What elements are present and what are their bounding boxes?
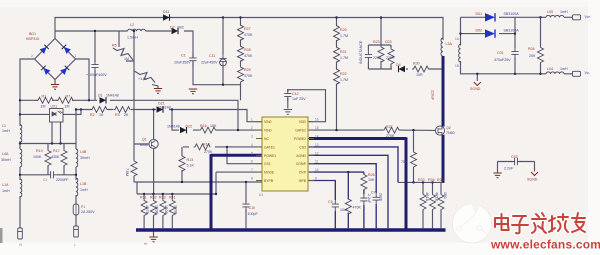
svg-text:B02: B02: [178, 25, 184, 29]
svg-text:+100uF400V: +100uF400V: [86, 73, 107, 77]
svg-text:2K: 2K: [124, 113, 129, 117]
svg-text:R36: R36: [437, 178, 444, 182]
svg-text:13: 13: [315, 143, 319, 147]
svg-text:20nF: 20nF: [379, 193, 383, 202]
svg-text:1M: 1M: [41, 105, 46, 109]
svg-text:C53: C53: [511, 155, 518, 159]
svg-text:D22: D22: [186, 125, 193, 129]
svg-text:INDUCTANCE: INDUCTANCE: [359, 40, 363, 64]
svg-text:10uF: 10uF: [340, 208, 349, 212]
svg-text:SGND: SGND: [527, 178, 538, 182]
svg-text:AGND: AGND: [296, 154, 306, 158]
svg-text:F1: F1: [81, 205, 85, 209]
svg-text:2200PF: 2200PF: [56, 178, 69, 182]
svg-text:2: 2: [31, 54, 33, 58]
svg-text:1M: 1M: [65, 105, 70, 109]
svg-text:R33: R33: [159, 195, 166, 199]
svg-text:1.7M: 1.7M: [340, 56, 348, 60]
svg-text:1mH: 1mH: [2, 189, 10, 193]
svg-text:Vo-: Vo-: [585, 71, 591, 75]
svg-text:POWE2: POWE2: [294, 137, 306, 141]
svg-text:220R: 220R: [386, 56, 395, 60]
svg-text:R26: R26: [368, 173, 375, 177]
svg-text:C1: C1: [43, 178, 47, 182]
svg-text:R19: R19: [36, 149, 43, 153]
svg-text:R13: R13: [187, 158, 194, 162]
svg-text:75K: 75K: [401, 160, 408, 164]
svg-text:6: 6: [251, 160, 253, 164]
svg-text:L1B: L1B: [80, 182, 87, 186]
svg-text:R3: R3: [115, 113, 120, 117]
svg-text:270K: 270K: [386, 134, 395, 138]
svg-text:VIN0: VIN0: [264, 120, 272, 124]
svg-text:R12: R12: [203, 143, 210, 147]
svg-text:SGND: SGND: [470, 87, 481, 91]
svg-text:R34: R34: [428, 178, 435, 182]
svg-text:COMP: COMP: [296, 162, 307, 166]
svg-text:D01: D01: [476, 12, 483, 16]
svg-text:L: L: [74, 243, 76, 247]
svg-text:BD1: BD1: [29, 32, 36, 36]
svg-text:L3A: L3A: [446, 42, 453, 46]
svg-text:1N4148: 1N4148: [106, 94, 119, 98]
svg-text:10K: 10K: [210, 124, 217, 128]
svg-text:100K: 100K: [33, 155, 42, 159]
svg-text:C7: C7: [371, 191, 376, 195]
svg-text:9: 9: [315, 177, 317, 181]
svg-text:Q2: Q2: [446, 126, 451, 130]
svg-text:430K: 430K: [51, 155, 60, 159]
svg-text:SB3100A: SB3100A: [504, 29, 520, 33]
svg-text:100pF: 100pF: [248, 212, 259, 216]
svg-text:16: 16: [315, 118, 319, 122]
svg-text:OVP: OVP: [299, 171, 307, 175]
svg-text:R30: R30: [413, 62, 420, 66]
svg-text:470K: 470K: [244, 54, 253, 58]
svg-text:1M: 1M: [124, 57, 129, 61]
svg-text:R27: R27: [386, 125, 393, 129]
svg-text:2.2uF: 2.2uF: [367, 194, 371, 204]
svg-text:5.1K: 5.1K: [187, 164, 195, 168]
svg-text:22uF450V: 22uF450V: [201, 61, 218, 65]
svg-text:+1.5u: +1.5u: [138, 77, 147, 81]
svg-text:2.2nF: 2.2nF: [504, 167, 514, 171]
svg-text:1N4148: 1N4148: [158, 106, 171, 110]
svg-text:L4B: L4B: [80, 150, 87, 154]
svg-text:1R0B: 1R0B: [174, 205, 178, 215]
svg-text:1mH: 1mH: [80, 188, 88, 192]
svg-text:R29: R29: [244, 68, 251, 72]
svg-text:R21: R21: [340, 50, 347, 54]
svg-text:R7: R7: [66, 95, 71, 99]
svg-text:R31: R31: [140, 195, 147, 199]
svg-text:4: 4: [251, 143, 253, 147]
svg-text:Q1: Q1: [142, 138, 147, 142]
svg-text:30mH: 30mH: [1, 158, 11, 162]
svg-text:1mH: 1mH: [2, 129, 10, 133]
svg-text:8050: 8050: [140, 143, 148, 147]
svg-text:R22: R22: [340, 72, 347, 76]
svg-text:4R7B: 4R7B: [145, 205, 149, 215]
svg-text:D23: D23: [385, 40, 392, 44]
svg-text:1B: 1B: [455, 64, 459, 68]
svg-text:C1: C1: [181, 54, 186, 58]
svg-text:L04: L04: [547, 67, 553, 71]
svg-text:470K: 470K: [244, 33, 253, 37]
svg-text:1mH: 1mH: [560, 10, 568, 14]
svg-text:R28: R28: [244, 48, 251, 52]
svg-text:20K: 20K: [529, 54, 536, 58]
svg-text:220K: 220K: [373, 56, 382, 60]
svg-text:R41: R41: [169, 195, 176, 199]
svg-text:11: 11: [315, 160, 319, 164]
svg-text:R27: R27: [244, 27, 251, 31]
svg-text:1R0: 1R0: [443, 192, 447, 199]
svg-text:D1: D1: [98, 94, 103, 98]
svg-text:BYPB: BYPB: [264, 179, 274, 183]
svg-text:R23: R23: [373, 40, 380, 44]
svg-text:15: 15: [315, 126, 319, 130]
svg-text:SB3100A: SB3100A: [504, 12, 520, 16]
svg-text:D2: D2: [170, 25, 175, 29]
svg-text:10uF350V: 10uF350V: [174, 61, 191, 65]
svg-text:470K: 470K: [353, 206, 362, 210]
svg-text:VIN0: VIN0: [264, 129, 272, 133]
svg-text:5: 5: [251, 151, 253, 155]
svg-text:10K: 10K: [368, 178, 375, 182]
svg-text:R16: R16: [200, 124, 207, 128]
svg-text:L2: L2: [130, 23, 134, 27]
svg-text:R5: R5: [112, 44, 117, 48]
svg-text:GATE2: GATE2: [295, 129, 306, 133]
svg-text:C12: C12: [292, 92, 299, 96]
svg-text:C11: C11: [209, 54, 215, 58]
svg-text:14: 14: [315, 135, 319, 139]
svg-text:1: 1: [75, 54, 77, 58]
svg-text:R33: R33: [418, 178, 425, 182]
svg-text:L05: L05: [547, 10, 553, 14]
svg-text:D02: D02: [476, 29, 483, 33]
svg-text:2A 250V: 2A 250V: [81, 210, 95, 214]
svg-text:1uF 25V: 1uF 25V: [292, 97, 306, 101]
svg-text:1.7M: 1.7M: [340, 34, 348, 38]
svg-text:1R0B: 1R0B: [155, 205, 159, 215]
svg-text:1: 1: [251, 118, 253, 122]
svg-text:470uF25V: 470uF25V: [494, 58, 511, 62]
svg-text:1mH: 1mH: [560, 67, 568, 71]
svg-text:270K: 270K: [204, 150, 213, 154]
svg-text:Vo+: Vo+: [585, 15, 591, 19]
svg-text:L1A: L1A: [2, 183, 9, 187]
svg-text:470K: 470K: [244, 74, 253, 78]
svg-text:1K: 1K: [99, 113, 104, 117]
svg-text:www.elecfans.com: www.elecfans.com: [490, 238, 600, 252]
svg-text:D11: D11: [163, 10, 169, 14]
svg-text:C9: C9: [328, 200, 333, 204]
svg-text:C01: C01: [497, 51, 504, 55]
svg-text:GATE1: GATE1: [264, 145, 275, 149]
svg-text:1.5mH: 1.5mH: [127, 36, 138, 40]
svg-text:L4A: L4A: [2, 152, 9, 156]
svg-text:R2: R2: [90, 113, 95, 117]
svg-text:R1: R1: [42, 95, 47, 99]
svg-text:L1: L1: [2, 124, 6, 128]
svg-text:R04: R04: [528, 47, 535, 51]
svg-text:BPB: BPB: [299, 179, 307, 183]
svg-text:7.5M: 7.5M: [125, 168, 129, 176]
svg-text:8: 8: [251, 177, 253, 181]
svg-text:1N4148: 1N4148: [167, 125, 180, 129]
svg-text:U1: U1: [259, 193, 263, 197]
svg-text:R20: R20: [340, 28, 347, 32]
svg-text:VDD: VDD: [299, 120, 307, 124]
svg-text:MODE: MODE: [264, 171, 275, 175]
svg-text:10: 10: [315, 168, 319, 172]
svg-text:CS1: CS1: [264, 162, 271, 166]
svg-text:3: 3: [251, 135, 253, 139]
svg-text:10R: 10R: [416, 73, 423, 77]
svg-text:R17: R17: [53, 149, 60, 153]
svg-text:7: 7: [251, 168, 253, 172]
svg-text:1R0B: 1R0B: [164, 205, 168, 215]
svg-text:U21: U21: [51, 104, 58, 108]
svg-text:POWE1: POWE1: [264, 154, 276, 158]
svg-text:R32: R32: [150, 195, 157, 199]
svg-text:220uF: 220uF: [431, 90, 435, 101]
svg-text:4R1B: 4R1B: [425, 192, 429, 202]
svg-text:4R1B: 4R1B: [435, 192, 439, 202]
svg-text:2: 2: [251, 126, 253, 130]
svg-text:NC: NC: [264, 137, 269, 141]
svg-text:12: 12: [315, 151, 319, 155]
svg-text:D4: D4: [396, 63, 401, 67]
svg-text:C10: C10: [249, 206, 256, 210]
svg-text:30mH: 30mH: [80, 156, 90, 160]
svg-text:7N60: 7N60: [446, 131, 455, 135]
svg-text:CS2: CS2: [299, 145, 306, 149]
svg-text:KBP310: KBP310: [26, 37, 39, 41]
svg-text:1.7M: 1.7M: [340, 78, 348, 82]
